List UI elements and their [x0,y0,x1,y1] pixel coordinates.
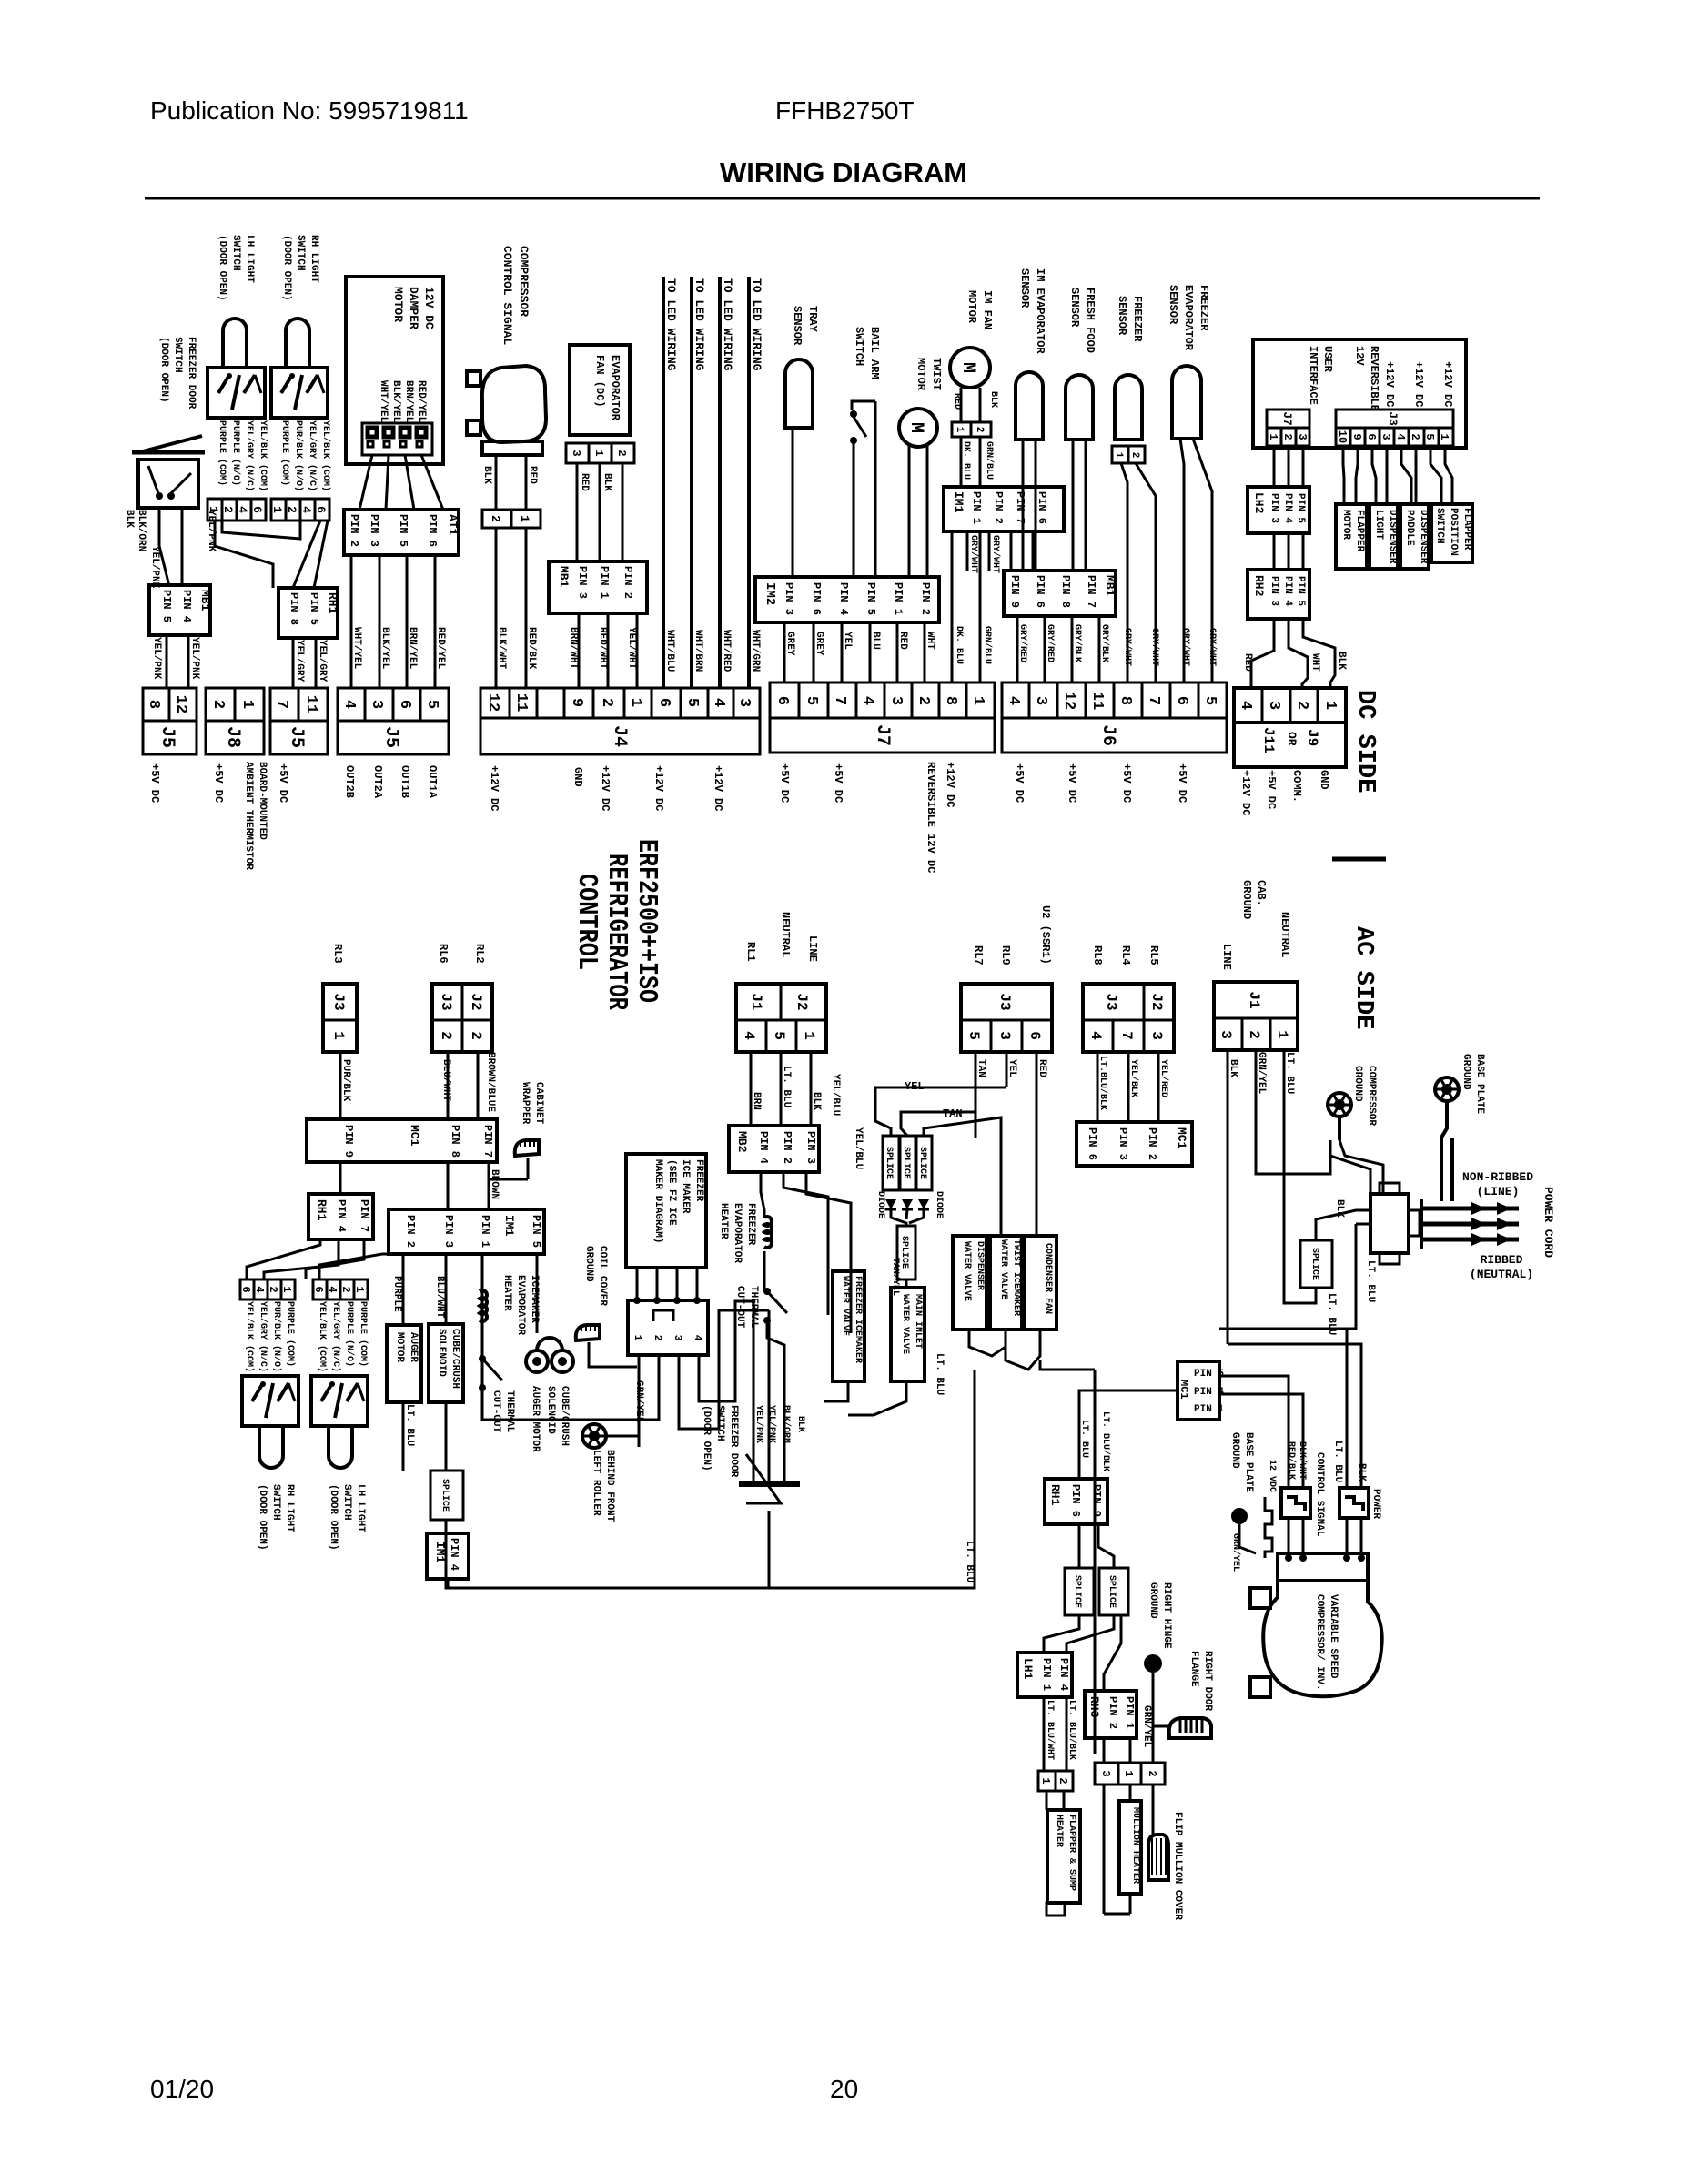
svg-text:PIN 7: PIN 7 [358,1199,370,1232]
svg-text:SPLICE: SPLICE [917,1147,927,1179]
svg-text:SPLICE: SPLICE [884,1147,894,1179]
svg-text:1: 1 [280,1286,293,1292]
wires IM1 down (GRY/WHT) [966,531,969,571]
svg-text:3: 3 [672,1335,682,1341]
dispenser water valve box [953,1236,986,1330]
svg-text:8: 8 [145,700,162,709]
svg-text:BLK/YEL: BLK/YEL [390,380,401,423]
compressor terminal box [1278,1553,1368,1581]
svg-text:GRY/WHT: GRY/WHT [1207,628,1218,666]
svg-text:BRN/YEL: BRN/YEL [403,380,414,423]
svg-text:U2 (SSR1): U2 (SSR1) [1039,905,1052,965]
svg-text:12: 12 [1060,692,1077,710]
wires YEL TAN jogs [875,1087,1006,1136]
wires RH1 to light switches [264,1239,339,1279]
connector IM2 strip [755,577,939,622]
wire MC1 pin9 to RH1 [339,1162,342,1194]
svg-text:PADDLE: PADDLE [1404,510,1415,546]
wires IM2 to J7 with color labels [783,622,786,682]
main inlet water valve box [891,1288,925,1381]
svg-text:PIN 1: PIN 1 [892,582,905,615]
svg-text:5: 5 [1423,433,1436,440]
svg-text:(LINE): (LINE) [1477,1185,1520,1198]
connector 3 1 2 (mullion heater) [1095,1763,1165,1785]
svg-text:1: 1 [592,450,605,456]
svg-text:4: 4 [253,1286,266,1292]
svg-text:1: 1 [330,1031,347,1040]
svg-text:LT. BLU/BLK: LT. BLU/BLK [1100,1411,1111,1471]
svg-text:COMPRESSOR: COMPRESSOR [517,246,531,317]
svg-text:WHT/YEL: WHT/YEL [378,380,389,423]
wires MB1 to J6 (GRY colors) [1016,616,1019,682]
svg-text:6: 6 [773,696,791,705]
svg-text:4: 4 [1394,433,1407,440]
svg-text:BLK: BLK [124,510,135,528]
svg-text:2: 2 [598,698,615,707]
cube/crush solenoid box [429,1324,463,1402]
svg-text:BROWN: BROWN [489,1169,500,1199]
svg-text:M: M [905,422,926,433]
svg-text:RH2: RH2 [1252,575,1266,597]
svg-text:NEUTRAL: NEUTRAL [779,912,792,957]
svg-text:J3: J3 [438,993,454,1010]
svg-text:PIN 4: PIN 4 [1282,493,1293,523]
svg-text:PIN 4: PIN 4 [180,590,193,622]
svg-text:3: 3 [1148,1031,1165,1040]
svg-text:3: 3 [1265,701,1282,710]
svg-text:POWER: POWER [1370,1489,1381,1519]
mullion heater box [1119,1801,1141,1894]
svg-text:2: 2 [438,1031,454,1040]
wire from J1 BLK to power conn [1228,1344,1361,1488]
svg-text:4: 4 [340,700,358,709]
svg-text:BLK/YEL: BLK/YEL [379,627,390,670]
svg-text:9: 9 [568,698,585,707]
svg-text:ERF2500++ISO: ERF2500++ISO [631,839,662,1003]
svg-text:DISPENSER: DISPENSER [1387,510,1398,564]
svg-text:BLK: BLK [601,473,612,491]
svg-text:2: 2 [615,450,628,456]
AC LH light switch box [311,1376,368,1426]
svg-text:PIN 1: PIN 1 [1194,1404,1224,1415]
svg-text:GRN/BLU: GRN/BLU [982,626,993,664]
connector J6 strip [1002,682,1227,753]
svg-text:GROUND: GROUND [1229,1432,1240,1469]
svg-text:MULLION HEATER: MULLION HEATER [1130,1807,1140,1884]
svg-text:CUBE/CRUSH: CUBE/CRUSH [450,1329,460,1389]
svg-text:BLK: BLK [481,466,492,484]
svg-text:GREY: GREY [784,632,795,656]
svg-text:(NEUTRAL): (NEUTRAL) [1470,1268,1533,1281]
svg-text:GND: GND [571,767,584,787]
svg-text:8: 8 [942,696,959,705]
svg-text:WATER VALVE: WATER VALVE [900,1294,910,1354]
svg-text:2: 2 [915,696,932,705]
svg-text:LH LIGHT: LH LIGHT [244,235,255,283]
wires MB1 to J5 [166,635,168,688]
svg-text:5: 5 [965,1031,982,1040]
svg-text:2: 2 [652,1335,662,1341]
svg-text:+5V DC: +5V DC [1120,763,1133,803]
svg-text:7: 7 [273,700,290,709]
svg-text:TO LED WIRING: TO LED WIRING [692,278,706,371]
svg-text:J5: J5 [380,726,401,748]
svg-text:PIN 9: PIN 9 [1090,1484,1103,1517]
svg-text:PIN 5: PIN 5 [1295,576,1306,606]
svg-text:FREEZER ICEMAKER: FREEZER ICEMAKER [853,1276,863,1363]
diode to splice wires [891,1209,906,1226]
svg-text:5: 5 [771,1031,787,1040]
svg-text:GRN/YEL: GRN/YEL [1141,1705,1152,1748]
connector MC1 right (pin5 pin4 pin1) [1178,1361,1219,1420]
svg-text:SPLICE: SPLICE [1309,1248,1319,1280]
flapper motor box [1336,504,1367,569]
svg-text:6: 6 [250,506,264,513]
svg-text:YEL/GRY (N/C): YEL/GRY (N/C) [330,1301,341,1372]
svg-text:3: 3 [368,700,385,709]
svg-text:POSITION: POSITION [1448,508,1459,556]
svg-text:1: 1 [627,698,644,707]
svg-text:YEL/BLU: YEL/BLU [853,1127,864,1169]
svg-text:PURPLE: PURPLE [391,1276,402,1312]
svg-text:J4: J4 [609,725,630,747]
connector AT1 (pin6 pin5 pin3 pin2) [344,510,459,555]
svg-text:PURPLE (COM): PURPLE (COM) [217,420,227,486]
svg-text:SENSOR: SENSOR [791,306,804,346]
svg-text:2: 2 [1293,701,1310,710]
wires to J4 (BLK/WHT RED/BLK) [495,528,498,688]
svg-text:FFHB2750T: FFHB2750T [775,96,915,125]
connector RH2 (pin3 pin4 pin5) [1248,570,1309,619]
svg-text:BEHIND FRONT: BEHIND FRONT [604,1450,615,1522]
svg-text:CAB.: CAB. [1255,880,1268,906]
wires J3(UI) to dispenser components [1343,446,1344,504]
connector RH1 (pin4 pin7) [308,1194,373,1239]
wire MC1 pin7 to ground and IM1 [488,1162,490,1209]
mullion heater wires [1103,1785,1106,1914]
svg-text:J3: J3 [330,993,347,1010]
svg-text:DAMPER: DAMPER [407,287,420,329]
svg-text:WATER VALVE: WATER VALVE [840,1276,850,1336]
svg-text:FREEZER DOOR: FREEZER DOOR [728,1405,739,1478]
svg-text:GRY/WHT: GRY/WHT [1122,628,1133,666]
svg-text:AT1: AT1 [446,514,460,536]
svg-text:+12V DC: +12V DC [1412,361,1425,407]
svg-text:1: 1 [353,1286,366,1292]
svg-text:TAN: TAN [975,1059,986,1077]
svg-text:MOTOR: MOTOR [915,358,927,391]
svg-text:PIN 2: PIN 2 [781,1131,793,1164]
svg-text:RH3: RH3 [1087,1696,1101,1718]
wires MC1 pin8 to IM1 pin3 [447,1162,450,1209]
svg-text:+5V DC: +5V DC [277,763,289,803]
svg-text:2: 2 [489,515,502,522]
svg-text:FLIP MULLION COVER: FLIP MULLION COVER [1172,1812,1183,1920]
svg-text:(DOOR OPEN): (DOOR OPEN) [328,1484,339,1551]
svg-text:REFRIGERATOR: REFRIGERATOR [601,854,632,1010]
svg-text:PIN 3: PIN 3 [442,1215,455,1248]
wires AC switch strips up [247,1239,320,1279]
svg-text:PIN 2: PIN 2 [348,514,360,547]
svg-text:(DOOR OPEN): (DOOR OPEN) [281,235,292,301]
svg-text:5: 5 [423,700,440,709]
wires LH2 to RH2 [1273,533,1276,570]
svg-text:GRN/YEL: GRN/YEL [1256,1052,1267,1095]
svg-text:GROUND: GROUND [1461,1054,1471,1090]
svg-text:(DOOR OPEN): (DOOR OPEN) [217,235,227,301]
svg-text:PIN 9: PIN 9 [342,1125,355,1158]
svg-text:MAKER DIAGRAM): MAKER DIAGRAM) [652,1159,663,1243]
svg-text:YEL/GRY (N/C): YEL/GRY (N/C) [307,420,318,491]
svg-text:6: 6 [1365,433,1378,440]
freezer ice maker box [626,1154,706,1268]
svg-text:RH1: RH1 [1048,1484,1062,1506]
nest wires icemaker area [482,1355,659,1420]
svg-text:3: 3 [1296,433,1309,440]
svg-text:7: 7 [1118,1031,1135,1040]
splice boxes with diodes [883,1136,899,1190]
svg-text:RL3: RL3 [331,944,344,964]
svg-text:CONDENSER FAN: CONDENSER FAN [1043,1243,1053,1314]
auger motor / cube-crush round connectors [526,1350,548,1372]
svg-text:5: 5 [803,696,820,705]
svg-text:PUR/BLK (N/O): PUR/BLK (N/O) [271,1301,282,1372]
splice (AC right) [1300,1240,1332,1288]
compressor control base box [482,441,542,455]
svg-text:WATER VALVE: WATER VALVE [998,1239,1008,1299]
tray sensor bulb [785,359,813,428]
svg-text:RED: RED [952,393,962,409]
svg-text:SPLICE: SPLICE [440,1479,450,1512]
svg-text:PIN 5: PIN 5 [864,582,877,615]
svg-text:4: 4 [299,506,313,513]
svg-text:6: 6 [312,1286,325,1292]
svg-text:MAIN INLET: MAIN INLET [913,1294,923,1349]
svg-text:GRY/RED: GRY/RED [1017,624,1028,662]
svg-text:SPLICE: SPLICE [1072,1575,1082,1608]
svg-text:BLU/WHT: BLU/WHT [434,1276,445,1319]
svg-text:1: 1 [1039,1777,1052,1784]
svg-text:YEL/BLK: YEL/BLK [1128,1059,1139,1097]
connector MB1 (pin3 pin1 pin2) [549,561,647,613]
svg-text:HEATER: HEATER [1054,1815,1064,1847]
svg-text:FREEZER: FREEZER [1131,296,1144,342]
svg-text:LT. BLU: LT. BLU [781,1066,792,1107]
svg-text:J5: J5 [157,726,177,748]
svg-text:WHT: WHT [925,632,935,650]
svg-text:PIN 7: PIN 7 [1014,491,1026,524]
svg-text:GRN/YEL: GRN/YEL [1230,1533,1241,1572]
svg-text:3: 3 [1032,696,1049,705]
IM fan motor symbol [950,348,990,388]
svg-text:SWITCH: SWITCH [295,235,306,271]
svg-text:LT. BLU: LT. BLU [1332,1441,1343,1482]
svg-text:LT. BLU: LT. BLU [1284,1052,1295,1094]
svg-text:IM1: IM1 [502,1215,516,1237]
svg-text:PIN 7: PIN 7 [1085,575,1097,608]
svg-text:FREEZER: FREEZER [745,1203,756,1246]
svg-text:PIN 2: PIN 2 [1146,1127,1158,1160]
svg-text:PURPLE (N/O): PURPLE (N/O) [344,1301,355,1367]
svg-text:BOARD-MOUNTED: BOARD-MOUNTED [257,762,268,840]
svg-text:REVERSIBLE 12V DC: REVERSIBLE 12V DC [925,762,937,873]
svg-text:PIN 4: PIN 4 [1282,576,1293,606]
svg-text:OUT2B: OUT2B [343,765,356,798]
svg-text:SWITCH: SWITCH [1434,508,1445,544]
svg-text:BRN: BRN [751,1092,762,1110]
svg-text:+12V DC: +12V DC [1239,770,1252,815]
svg-text:DC SIDE: DC SIDE [1351,690,1379,793]
svg-text:YEL/GRY (N/C): YEL/GRY (N/C) [244,420,255,491]
wires splice to plug [1316,1210,1370,1240]
YEL/BLU wires from MB2 bottom [783,1172,828,1315]
wires damper to AT1 [359,455,372,510]
svg-text:LT. BLU: LT. BLU [404,1404,415,1446]
AC RH light switch box [242,1376,298,1426]
svg-text:YEL: YEL [1006,1059,1017,1077]
svg-text:PIN 8: PIN 8 [449,1125,461,1158]
svg-text:J8: J8 [222,726,243,748]
svg-text:SOLENOID: SOLENOID [436,1329,447,1377]
svg-text:Publication No: 5995719811: Publication No: 5995719811 [150,96,469,125]
svg-text:YEL/BLU: YEL/BLU [830,1074,841,1116]
svg-text:YEL: YEL [842,632,853,650]
dispenser paddle box [1400,504,1429,569]
svg-text:GREY: GREY [814,632,824,656]
freezer sensor connector 1 2 [1112,446,1145,463]
svg-text:RED/YEL: RED/YEL [435,627,446,670]
svg-text:RED/BLK: RED/BLK [526,627,537,670]
svg-text:PIN 5: PIN 5 [1295,493,1306,523]
svg-text:11: 11 [512,693,530,712]
svg-text:DISPENSER: DISPENSER [1418,510,1429,564]
LH light switch lamp [223,318,247,368]
AC light switch strips 6 4 2 1 [240,1279,254,1299]
svg-text:RH LIGHT: RH LIGHT [284,1484,295,1532]
svg-text:+5V DC: +5V DC [148,763,161,803]
long LT.BLU bus wire [446,1370,975,1588]
svg-text:PIN 3: PIN 3 [368,514,380,547]
svg-text:BLK: BLK [988,391,998,408]
svg-text:4: 4 [326,1286,339,1292]
svg-text:YEL/PNK: YEL/PNK [149,546,160,589]
svg-text:DISPENSER: DISPENSER [975,1241,985,1290]
svg-text:SWITCH: SWITCH [172,337,183,373]
RH light switch lamp [286,318,309,368]
svg-text:3: 3 [996,1031,1013,1040]
svg-text:PIN 4: PIN 4 [837,582,850,615]
svg-text:DK. BLU: DK. BLU [961,441,971,480]
twist motor symbol [899,409,937,447]
freezer evaporator sensor bulb [1172,366,1201,439]
wires LH1 down [1043,1697,1046,1771]
splice TAN/YEL [897,1226,915,1279]
svg-text:PIN 4: PIN 4 [757,1131,770,1164]
svg-text:RED/WHT: RED/WHT [597,627,608,670]
svg-text:YEL/WHT: YEL/WHT [626,627,637,670]
svg-text:COIL COVER: COIL COVER [597,1246,608,1306]
svg-text:+5V DC: +5V DC [832,763,844,803]
wires AT1 to J5 with labels [350,555,353,688]
svg-text:HEATER: HEATER [501,1275,512,1311]
svg-text:+12V DC: +12V DC [652,765,665,811]
twist icemaker water valve box [990,1236,1022,1330]
wires J3 down TAN YEL RED [975,1052,977,1137]
svg-text:BLK: BLK [811,1092,822,1110]
svg-text:MB1: MB1 [1103,575,1117,597]
freezer evaporator heater coil [764,1217,772,1248]
wires RH1 to splices [1078,1524,1081,1568]
svg-text:RL1: RL1 [744,942,757,962]
svg-text:4: 4 [236,506,249,513]
svg-text:MC1: MC1 [1178,1380,1190,1400]
svg-text:FLAPPER: FLAPPER [1354,510,1365,552]
svg-text:PIN 3: PIN 3 [783,582,795,615]
svg-text:1: 1 [1438,433,1450,440]
svg-text:USER: USER [1321,346,1334,373]
splice (auger) [430,1471,463,1520]
svg-text:WATER VALVE: WATER VALVE [962,1241,972,1301]
svg-text:2: 2 [1129,452,1140,459]
svg-text:FREEZER: FREEZER [1198,285,1210,331]
svg-text:2: 2 [468,1031,484,1040]
svg-text:YEL/PNK: YEL/PNK [753,1405,764,1443]
splice boxes above LH1/RH3 [1065,1568,1094,1615]
svg-text:OR: OR [1285,732,1299,746]
svg-text:+12V DC: +12V DC [599,765,612,811]
svg-text:TWIST ICEMAKER: TWIST ICEMAKER [1011,1239,1021,1316]
svg-text:TO LED WIRING: TO LED WIRING [664,278,678,371]
svg-text:RL8: RL8 [1091,945,1104,966]
svg-text:YEL/RED: YEL/RED [1158,1059,1169,1097]
freezer sensor bulb [1115,375,1142,440]
svg-text:TRAY: TRAY [806,306,819,333]
wire freezer door switch to MB1 [158,508,161,546]
svg-text:PIN 3: PIN 3 [1269,493,1279,523]
svg-text:MOTOR: MOTOR [394,1332,405,1362]
svg-text:TAN: TAN [943,1107,963,1120]
svg-text:J5: J5 [286,726,307,748]
connector J9 OR J11 [1234,688,1346,767]
svg-text:RED: RED [1242,653,1253,672]
svg-text:12V: 12V [1353,346,1366,366]
base plate ground (lower) [1231,1508,1248,1524]
connector 1 2 (flapper heater) [1038,1771,1073,1791]
svg-text:RH1: RH1 [315,1199,329,1221]
svg-text:2: 2 [1409,433,1421,440]
svg-text:EVAPORATOR: EVAPORATOR [515,1275,526,1335]
wires IM1 pins down [402,1254,405,1325]
wires MC1 right to control signal connector [1219,1376,1289,1488]
svg-text:PIN 2: PIN 2 [404,1215,417,1248]
svg-text:THERMAL: THERMAL [504,1390,515,1433]
wires into MC1 right [1094,1370,1097,1754]
compressor ground ring [1328,1093,1351,1117]
svg-text:LT. BLU: LT. BLU [934,1353,945,1395]
svg-text:2: 2 [1281,433,1294,440]
connector MB2 (pin4 pin2 pin3) [729,1126,819,1172]
svg-text:DIODE: DIODE [875,1191,885,1218]
svg-text:BROWN/BLUE: BROWN/BLUE [485,1052,496,1112]
power cord plug [1370,1194,1409,1253]
svg-text:FAN (DC): FAN (DC) [593,355,606,408]
compressor side squares [1250,1588,1270,1608]
power cord lines with arrows [1420,1199,1423,1249]
LH switch connector strip 1 2 4 6 [207,499,222,521]
svg-text:WHT/YEL: WHT/YEL [351,627,362,670]
svg-text:BLK: BLK [1336,652,1347,670]
svg-text:M: M [957,362,978,373]
